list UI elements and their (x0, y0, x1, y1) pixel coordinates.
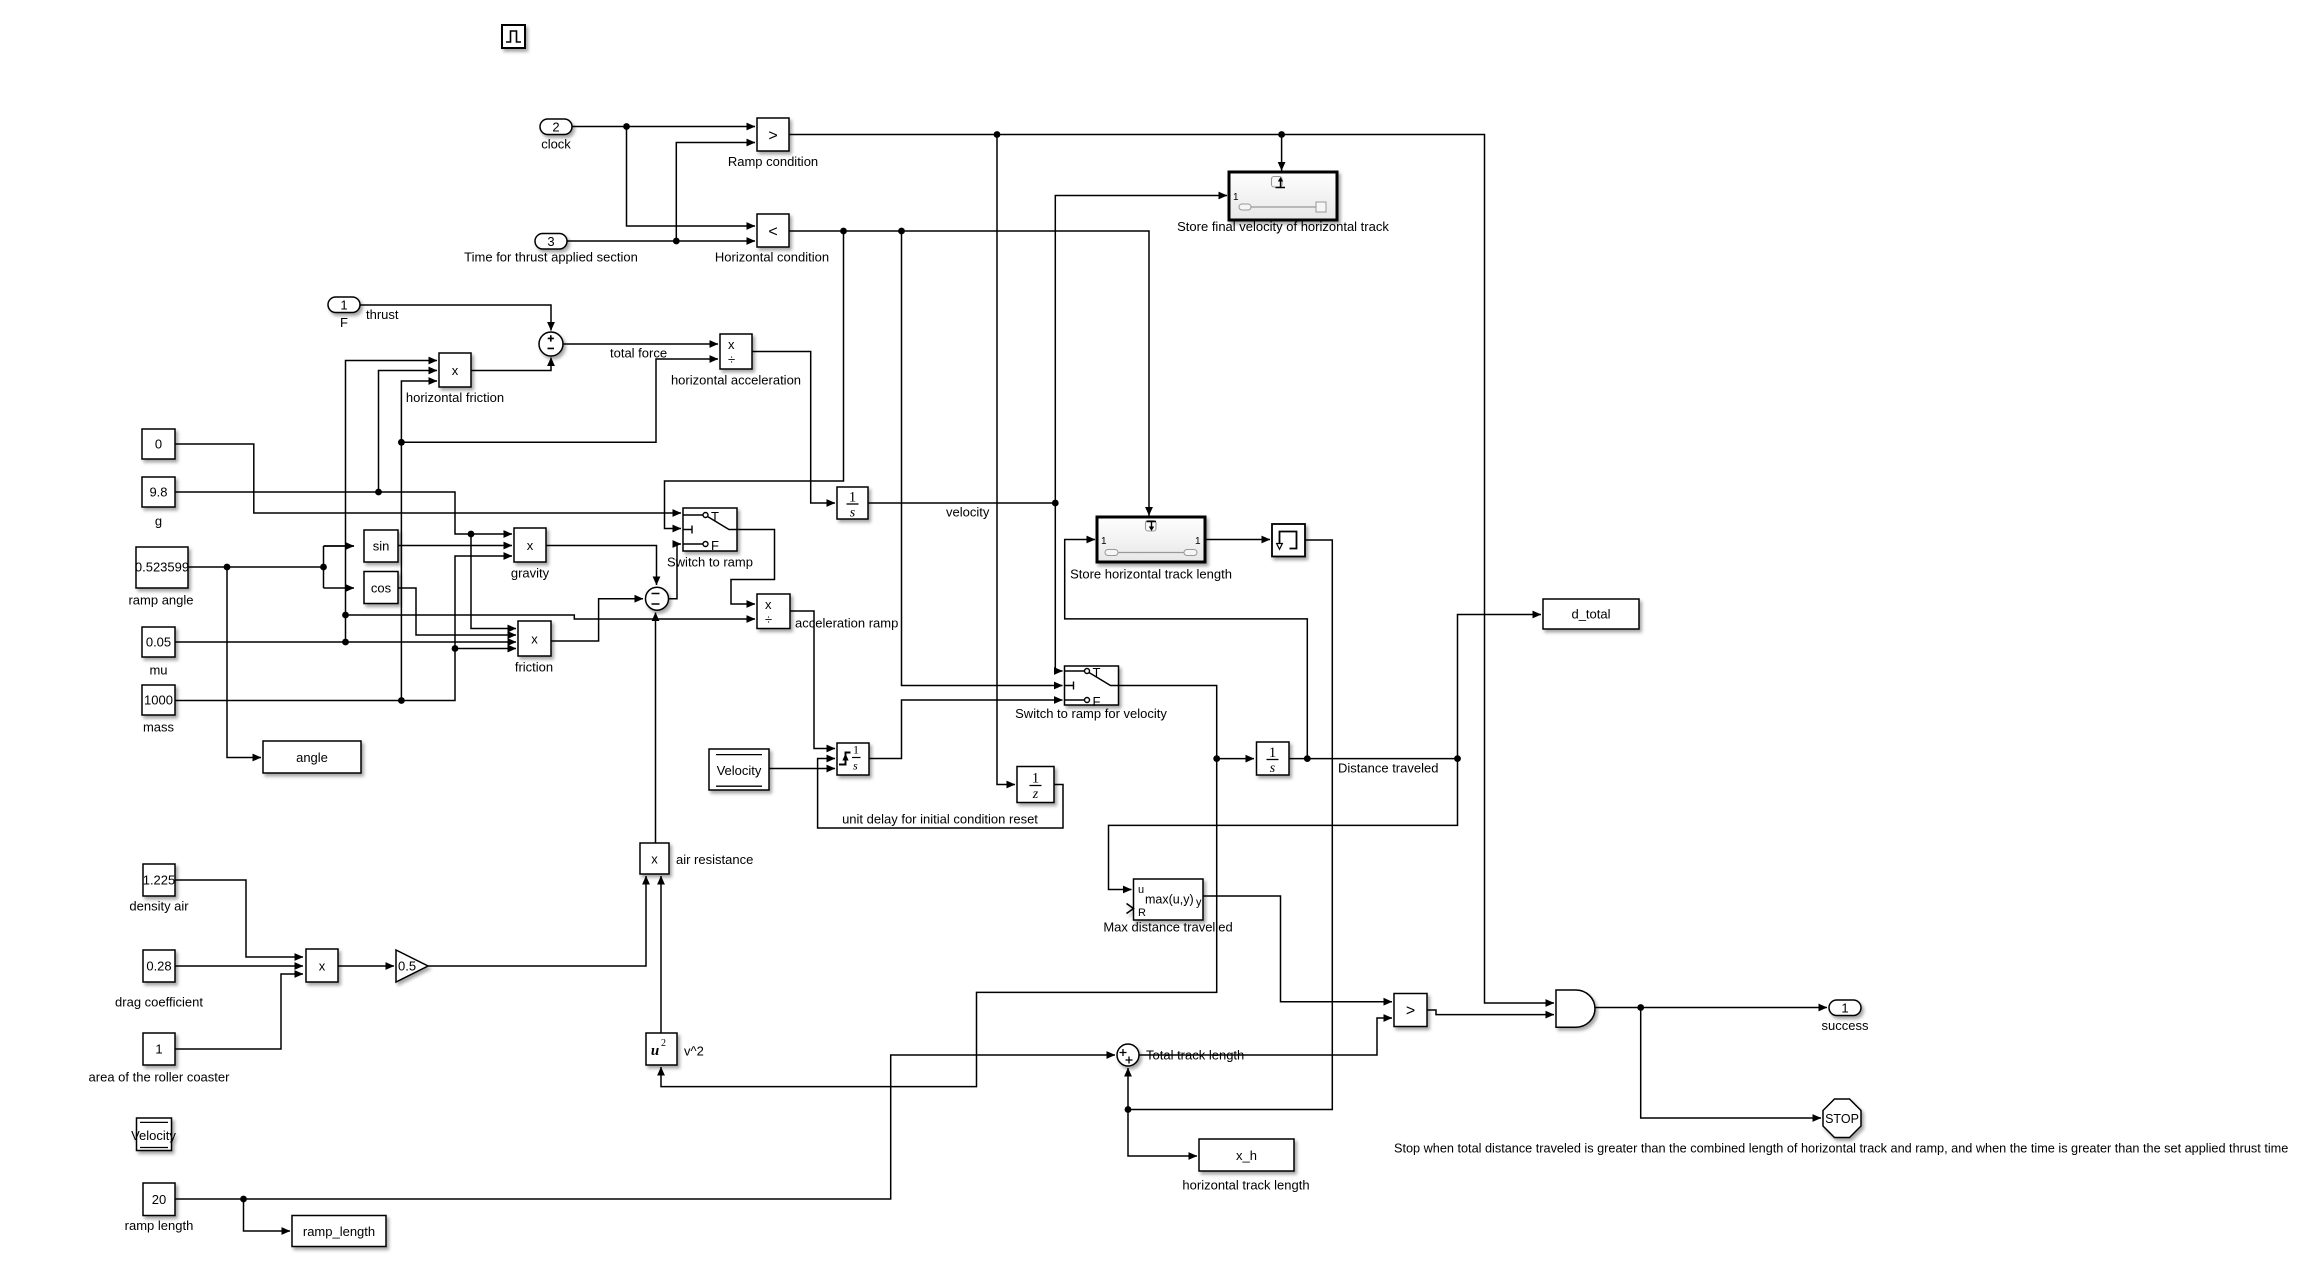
svg-text:success: success (1822, 1018, 1869, 1033)
goto x_h (1199, 1139, 1294, 1171)
svg-text:1: 1 (849, 490, 857, 506)
switch Switch to ramp (683, 508, 737, 551)
node mass friction branch (452, 645, 459, 652)
wire velocity to Switch to ramp for velocity T (1055, 503, 1062, 671)
wire g to gravity product (175, 492, 512, 534)
integrator distance (1257, 742, 1290, 776)
wire g branch to horizontal friction (379, 371, 438, 493)
svg-text:1: 1 (1841, 1001, 1848, 1016)
relational operator Horizontal condition (757, 214, 789, 247)
wire greater to AND (1427, 1010, 1555, 1015)
svg-text:Horizontal condition: Horizontal condition (715, 250, 829, 265)
gain 0.5 (396, 950, 428, 982)
constant mass (142, 685, 175, 715)
inport 3 Time for thrust applied section (535, 234, 567, 250)
wire max to greater (1203, 896, 1392, 1002)
wire area to product (175, 974, 303, 1049)
svg-text:g: g (155, 514, 162, 529)
svg-text:sin: sin (373, 539, 390, 554)
wire velocity to Store final velocity (1055, 196, 1227, 504)
switch Switch to ramp for velocity (1065, 666, 1119, 705)
wire subtract to Switch to ramp F (669, 544, 682, 599)
svg-text:ramp angle: ramp angle (128, 593, 193, 608)
svg-text:Switch to ramp: Switch to ramp (667, 555, 753, 570)
svg-text:x: x (452, 363, 459, 378)
node g gravity branch (468, 531, 475, 538)
svg-text:1: 1 (1233, 192, 1239, 203)
wire friction to subtract (551, 599, 643, 641)
svg-text:Velocity: Velocity (131, 1128, 176, 1143)
svg-text:÷: ÷ (765, 612, 772, 627)
wire mu branch to horizontal friction (346, 361, 438, 643)
svg-text:1: 1 (1101, 536, 1107, 547)
unit delay 1/z (1017, 767, 1054, 803)
subsystem Store final velocity of horizontal track (1229, 172, 1337, 220)
svg-text:2: 2 (661, 1038, 666, 1049)
trig sin (364, 530, 398, 562)
wire thrust to sum (360, 305, 551, 331)
svg-text:drag coefficient: drag coefficient (115, 995, 203, 1010)
svg-text:max(u,y): max(u,y) (1145, 893, 1194, 907)
node ramp condition branch 1 (994, 131, 1001, 138)
wire gain to air resistance (428, 876, 646, 966)
svg-text:1000: 1000 (144, 693, 173, 708)
svg-text:÷: ÷ (728, 352, 735, 367)
wire total track sum to greater (1139, 1018, 1392, 1055)
svg-text:total force: total force (610, 346, 667, 361)
goto angle (263, 741, 361, 773)
wire clock to Ramp condition (572, 126, 755, 128)
wire unit delay feedback to reset integrator (818, 759, 1063, 829)
node horizontal condition branch 2 (898, 228, 905, 235)
product air resistance (640, 843, 669, 874)
svg-text:x: x (651, 852, 658, 867)
svg-text:Switch to ramp for velocity: Switch to ramp for velocity (1015, 706, 1167, 721)
svg-text:0.05: 0.05 (146, 635, 171, 650)
wire AND to success (1594, 1007, 1827, 1009)
wire Store horizontal track length to memory (1205, 539, 1270, 541)
svg-text:mu: mu (149, 663, 167, 678)
wire to distance integrator (1217, 758, 1254, 760)
wire Horizontal condition branch to Switch to ramp for velocity control (902, 231, 1063, 686)
svg-text:friction: friction (515, 660, 553, 675)
wire g branch to friction product (471, 534, 516, 629)
wire cos to friction (398, 588, 516, 635)
pulse generator icon (502, 25, 525, 48)
node and output junction (1637, 1004, 1644, 1011)
svg-text:2: 2 (552, 120, 559, 135)
node clock branch (623, 123, 630, 130)
svg-text:x_h: x_h (1236, 1148, 1257, 1163)
svg-text:0.523599: 0.523599 (135, 560, 189, 575)
wire velocity line (868, 502, 1055, 504)
wire distance to d_total (1458, 615, 1542, 759)
stop block (1823, 1099, 1861, 1138)
svg-text:Ramp condition: Ramp condition (728, 154, 818, 169)
svg-text:u: u (1138, 884, 1144, 896)
wire branch to total track sum (1127, 1068, 1129, 1110)
svg-text:3: 3 (547, 234, 554, 249)
wire mass to horizontal acceleration divider (401, 359, 718, 442)
wire total force (563, 343, 718, 345)
wire mu branch to acceleration ramp divider (346, 615, 756, 619)
svg-text:x: x (531, 632, 538, 647)
svg-text:1: 1 (340, 298, 347, 313)
svg-text:d_total: d_total (1571, 607, 1610, 622)
svg-text:F: F (711, 538, 719, 553)
svg-text:clock: clock (541, 137, 571, 152)
minmax Max distance travelled (1127, 879, 1204, 920)
wire sin to gravity (398, 545, 512, 547)
svg-text:x: x (765, 597, 772, 612)
sum total track length (1117, 1044, 1139, 1066)
svg-text:0: 0 (155, 437, 162, 452)
wire Switch to ramp to acceleration ramp (731, 530, 775, 605)
constant ramp angle (135, 547, 189, 588)
wire horizontal friction to sum (471, 358, 551, 371)
svg-text:Time for thrust applied sectio: Time for thrust applied section (464, 250, 638, 265)
product horizontal friction (439, 353, 471, 387)
wire distance to Store horizontal track length (1065, 540, 1308, 759)
svg-text:s: s (850, 506, 856, 521)
goto ramp_length (292, 1216, 386, 1247)
wire clock branch to Horizontal condition (627, 127, 756, 227)
svg-text:acceleration ramp: acceleration ramp (795, 616, 898, 631)
svg-text:v^2: v^2 (684, 1044, 704, 1059)
wire Ramp condition to unit delay (997, 135, 1015, 785)
svg-text:9.8: 9.8 (149, 485, 167, 500)
product friction (518, 621, 551, 656)
math square v^2 (646, 1033, 677, 1065)
integrator velocity (837, 487, 868, 521)
svg-text:horizontal acceleration: horizontal acceleration (671, 373, 801, 388)
svg-text:1.225: 1.225 (143, 873, 176, 888)
wire port3 branch to Ramp condition (676, 143, 755, 242)
svg-text:Velocity: Velocity (717, 763, 762, 778)
wire AND to STOP (1641, 1008, 1821, 1119)
wire Ramp condition to trigger of Store final velocity (1281, 135, 1283, 171)
subtract block (646, 587, 669, 610)
svg-text:1: 1 (1195, 536, 1201, 547)
wire v squared to air resistance (660, 876, 662, 1033)
data store read Velocity (709, 749, 769, 790)
svg-text:F: F (340, 315, 348, 330)
wire mass to gravity product (175, 556, 512, 701)
relational operator Ramp condition (757, 118, 789, 151)
wire branch to x_h (1128, 1110, 1197, 1157)
svg-text:unit delay for initial conditi: unit delay for initial condition reset (842, 812, 1038, 827)
svg-text:20: 20 (152, 1192, 166, 1207)
subsystem Store horizontal track length (1097, 517, 1205, 562)
node ramp angle tee (320, 564, 327, 571)
svg-text:horizontal friction: horizontal friction (406, 390, 504, 405)
inport 1 F thrust (328, 297, 360, 313)
wire ramp angle to sin cos tee (188, 546, 354, 588)
svg-text:STOP: STOP (1825, 1112, 1859, 1126)
constant 9.8 g (142, 477, 175, 507)
wire mu to friction (175, 641, 516, 643)
constant 20 ramp length (143, 1183, 175, 1216)
wire memory to total track sum (1128, 540, 1332, 1110)
divide acceleration ramp (757, 594, 790, 629)
svg-text:y: y (1196, 897, 1202, 909)
svg-text:mass: mass (143, 720, 175, 735)
wire port3 to Horizontal condition (567, 240, 755, 242)
svg-text:Stop when total distance trave: Stop when total distance traveled is gre… (1394, 1142, 2288, 1156)
wire Horizontal condition to trigger of Store horizontal track length (789, 231, 1149, 516)
node mass divider branch (398, 439, 405, 446)
svg-text:<: < (768, 224, 777, 241)
svg-text:x: x (527, 538, 534, 553)
svg-text:1: 1 (853, 743, 859, 757)
svg-text:Store final velocity of horizo: Store final velocity of horizontal track (1177, 219, 1389, 234)
constant 0 (142, 429, 175, 459)
trig cos (364, 572, 398, 604)
svg-text:s: s (853, 759, 858, 773)
wire product to gain (338, 965, 394, 967)
svg-text:area of the roller coaster: area of the roller coaster (89, 1070, 231, 1085)
svg-text:1: 1 (1269, 745, 1277, 761)
wire ramp length to ramp_length (244, 1199, 291, 1231)
svg-text:1: 1 (155, 1042, 162, 1057)
svg-text:air resistance: air resistance (676, 852, 753, 867)
wire Switch to ramp for velocity to v squared (661, 686, 1217, 1087)
wire drag coefficient to product (175, 965, 303, 967)
node distance junction (1454, 755, 1461, 762)
wire Ramp condition to AND (789, 135, 1554, 1004)
svg-text:gravity: gravity (511, 566, 550, 581)
wire distance traveled (1289, 758, 1458, 760)
svg-text:ramp length: ramp length (125, 1218, 194, 1233)
constant drag coefficient (143, 950, 175, 982)
wire air resistance to subtract (655, 613, 657, 844)
svg-text:1: 1 (1032, 771, 1040, 787)
wire Velocity read to reset integrator (769, 768, 835, 770)
node total track loop junction (1125, 1106, 1132, 1113)
constant area (143, 1033, 175, 1065)
wire gravity to subtract (546, 546, 657, 586)
svg-text:>: > (1406, 1003, 1415, 1020)
svg-text:density air: density air (129, 899, 189, 914)
svg-text:angle: angle (296, 750, 328, 765)
svg-text:R: R (1138, 907, 1146, 919)
outport 1 success (1829, 1000, 1861, 1016)
node horizontal condition branch 1 (840, 228, 847, 235)
wire distance to max (1109, 759, 1458, 890)
svg-text:T: T (711, 509, 719, 524)
node switch velocity out junction (1213, 755, 1220, 762)
svg-text:Distance traveled: Distance traveled (1338, 761, 1438, 776)
svg-text:s: s (1270, 761, 1276, 776)
wire constant 0 to Switch to ramp T (175, 444, 681, 513)
logical operator AND (1556, 990, 1595, 1027)
svg-text:u: u (651, 1043, 659, 1059)
svg-text:thrust: thrust (366, 307, 399, 322)
wire Horizontal condition branch to Switch to ramp control (665, 231, 844, 529)
svg-text:ramp_length: ramp_length (303, 1224, 375, 1239)
node g branch (375, 489, 382, 496)
wire density air to product (175, 880, 303, 957)
product gravity (514, 528, 546, 562)
product drag (306, 949, 338, 982)
divide horizontal acceleration (720, 334, 752, 369)
svg-text:z: z (1032, 787, 1039, 802)
inport 2 clock (540, 119, 572, 135)
svg-text:velocity: velocity (946, 505, 990, 520)
integrator with reset (837, 743, 869, 776)
node velocity junction (1052, 500, 1059, 507)
wire ramp angle to angle (227, 567, 261, 758)
svg-text:0.28: 0.28 (146, 959, 171, 974)
svg-text:cos: cos (371, 581, 392, 596)
node ramp condition branch 2 (1278, 131, 1285, 138)
goto d_total (1543, 599, 1639, 629)
sum block thrust minus friction (539, 332, 563, 356)
svg-text:x: x (728, 337, 735, 352)
node port3 branch (673, 238, 680, 245)
svg-text:Total track length: Total track length (1146, 1048, 1244, 1063)
svg-text:>: > (768, 128, 777, 145)
svg-text:0.5: 0.5 (398, 959, 416, 974)
data store memory Velocity (131, 1118, 176, 1151)
svg-text:horizontal track length: horizontal track length (1182, 1178, 1309, 1193)
node mu branch (342, 639, 349, 646)
wire ramp length to total track sum (175, 1055, 1115, 1199)
relational operator greater (1394, 994, 1427, 1027)
wire reset integrator to Switch to ramp for velocity F (869, 700, 1063, 759)
node distance store branch (1304, 755, 1311, 762)
svg-text:Store horizontal track length: Store horizontal track length (1070, 567, 1232, 582)
node ramp length branch (240, 1196, 247, 1203)
svg-text:Max distance travelled: Max distance travelled (1103, 920, 1232, 935)
node mu accel branch (342, 612, 349, 619)
wire mass branch to horizontal friction (401, 381, 437, 701)
wire acceleration ramp to reset integrator (790, 611, 835, 749)
constant density air (143, 864, 176, 896)
svg-text:x: x (319, 959, 326, 974)
wire horizontal acceleration to velocity integrator (752, 352, 835, 504)
node mass branch (398, 697, 405, 704)
node ramp angle branch (224, 564, 231, 571)
wire mass branch to friction product (455, 648, 516, 650)
constant mu (142, 627, 175, 657)
memory block (1272, 524, 1305, 557)
svg-text:T: T (1093, 665, 1101, 680)
